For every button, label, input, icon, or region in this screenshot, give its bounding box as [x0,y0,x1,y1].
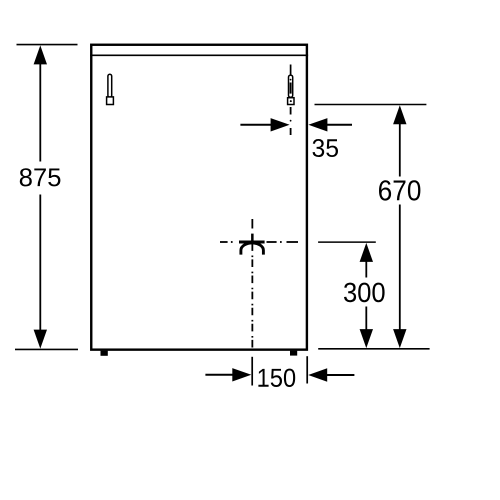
dim 670 line and arrows [393,105,406,348]
dim 150 label [258,369,295,387]
dim 875 top tick [17,44,78,46]
left transit bolt [107,74,114,104]
dim 150 right tick [306,356,308,383]
right foot [290,351,297,356]
left foot [101,351,108,356]
dim 875 label [20,168,61,186]
dim 35 label [313,139,339,157]
dim 670 top tick [315,104,427,106]
dim 35 arrows [240,118,352,131]
right transit bolt [288,65,294,136]
dim 300 top tick [318,241,376,243]
worktop band line [90,54,308,56]
floor baseline [318,348,429,350]
dim 300 label [344,283,385,303]
dim 875 bottom tick [15,348,78,350]
dim 670 label [379,180,420,200]
tap vertical centerline [251,219,253,349]
dim 300 line and arrows [360,243,373,348]
drain hose connector symbol [239,234,265,255]
dim 150 arrows [205,368,354,382]
dim 875 line and arrows [34,45,47,348]
appliance outline [91,45,307,350]
dim 150 left tick [251,357,253,386]
tap horizontal centerline [220,241,298,243]
